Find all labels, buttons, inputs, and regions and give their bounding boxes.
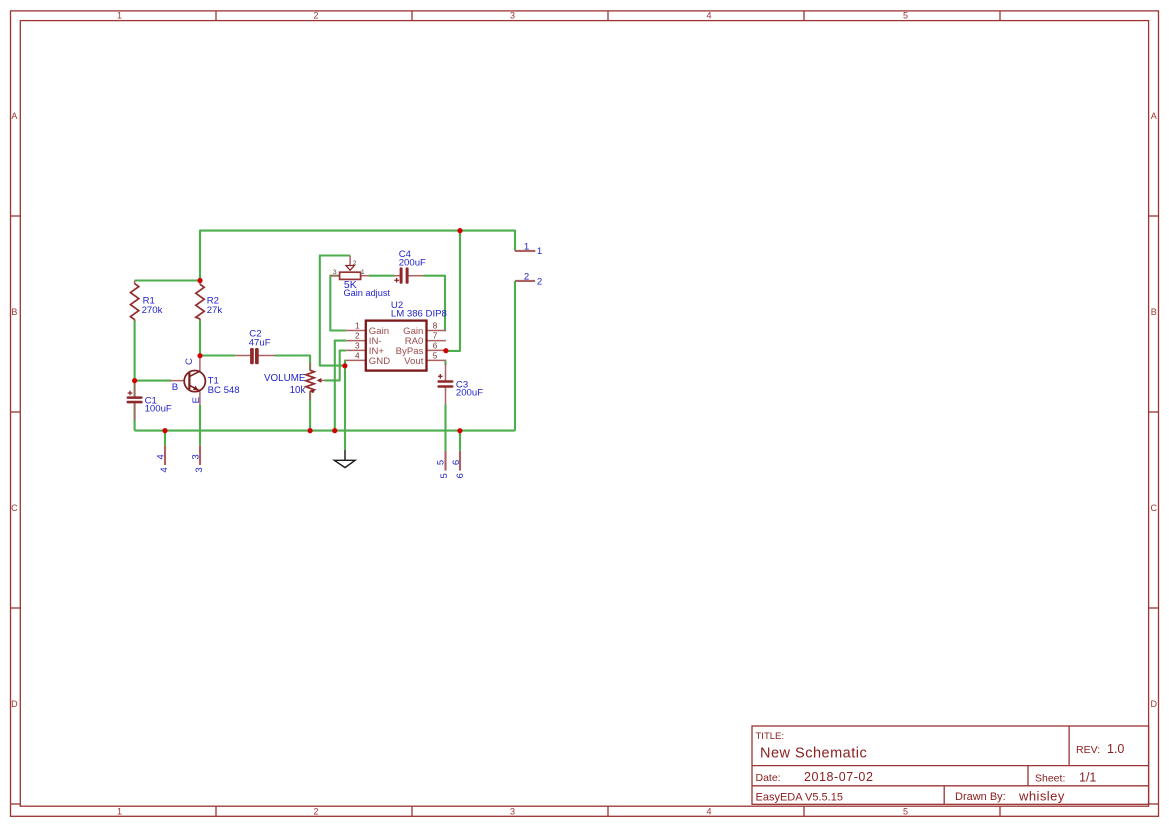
port 1 stub [515,250,535,252]
svg-text:B: B [11,307,17,317]
port 3 stub [199,446,201,465]
wire 5K wiper to gnd net [320,256,350,366]
junction pin 6 ByPas node [443,348,448,353]
svg-text:Drawn By:: Drawn By: [955,791,1006,803]
wire 5K left to pin1 [330,276,346,331]
capacitor C2 [250,348,259,364]
wire IN- down to rail [335,341,346,431]
potentiometer 5K wiper triangle [346,266,354,271]
capacitor C4 [400,267,409,283]
svg-text:Gain adjust: Gain adjust [344,288,391,298]
svg-text:A: A [1151,111,1157,121]
svg-text:3: 3 [510,11,515,21]
wire port4 stub top [164,431,166,446]
junction ground rail / port 6 [457,428,462,433]
blue labels [142,241,543,478]
svg-text:C: C [1151,503,1158,513]
svg-text:4: 4 [355,352,360,361]
svg-text:4: 4 [155,454,166,460]
svg-text:270k: 270k [142,305,163,316]
junction base / C1 / R1 node [132,378,137,383]
junction R1/R2 top node [197,278,202,283]
C1 plus sign [128,391,133,396]
svg-text:5: 5 [903,807,908,817]
wire wiper to IN+ [325,351,346,381]
port 6 stub [459,451,461,471]
svg-text:5: 5 [439,473,450,478]
svg-text:2: 2 [313,807,318,817]
svg-text:1: 1 [117,11,122,21]
svg-text:E: E [191,397,202,403]
5K right lead [361,275,369,277]
svg-text:5: 5 [436,460,447,465]
port 5 stub [444,451,446,471]
wire vcc to pin6 [446,231,460,351]
svg-text:1: 1 [117,807,122,817]
svg-text:REV:: REV: [1076,744,1100,756]
svg-text:27k: 27k [207,305,223,316]
svg-text:Vout: Vout [404,356,424,367]
resistor R2 [196,284,204,319]
resistor R2 stubs [199,281,201,285]
5K left lead [330,275,340,277]
svg-text:1: 1 [537,246,542,257]
svg-text:GND: GND [369,356,390,367]
svg-text:TITLE:: TITLE: [756,731,785,742]
T1 emitter lead [199,392,201,405]
svg-text:1/1: 1/1 [1079,771,1096,785]
svg-text:D: D [1151,699,1158,709]
C3 leads [445,364,447,381]
svg-text:B: B [172,382,178,393]
svg-text:C: C [11,503,18,513]
svg-text:C: C [184,358,195,365]
wire port6 stub top [459,431,461,451]
volume pot stubs [309,363,311,371]
svg-text:B: B [1151,307,1157,317]
svg-text:BC 548: BC 548 [208,385,240,396]
wire emitter down [199,405,201,446]
svg-text:3: 3 [333,269,337,276]
wire port2 down [514,281,516,431]
svg-text:6: 6 [433,342,438,351]
svg-text:4: 4 [706,11,711,21]
svg-text:2: 2 [524,272,529,283]
svg-text:A: A [11,111,17,121]
svg-text:2018-07-02: 2018-07-02 [804,770,873,784]
svg-text:Sheet:: Sheet: [1035,773,1065,785]
capacitor C3 [437,380,453,387]
port 4 stub [164,446,166,465]
svg-text:VOLUME: VOLUME [264,373,306,384]
svg-text:New Schematic: New Schematic [760,746,867,762]
C1 leads [134,381,136,397]
svg-text:3: 3 [510,807,515,817]
junction V+ rail / bypass branch [457,228,462,233]
svg-text:5: 5 [433,352,438,361]
C2 leads [235,355,250,357]
svg-text:1: 1 [355,322,360,331]
junction ground rail / volume [308,428,313,433]
resistor R1 stubs [134,281,136,285]
title block [752,726,1149,804]
5K wiper lead [349,256,351,266]
svg-text:3: 3 [190,454,201,459]
C3 plus sign [438,374,443,379]
svg-text:3: 3 [355,342,360,351]
svg-text:7: 7 [433,332,438,341]
svg-text:1.0: 1.0 [1107,742,1124,756]
T1 collector lead [199,356,201,371]
wire volume bottom [309,391,311,430]
svg-text:1: 1 [524,241,529,252]
svg-text:Date:: Date: [756,772,781,784]
svg-text:2: 2 [353,260,357,267]
potentiometer 5K body [340,272,361,279]
junction GND net / 5K wiper [342,363,347,368]
svg-text:47uF: 47uF [249,338,271,349]
svg-text:200uF: 200uF [399,258,426,269]
svg-text:6: 6 [455,473,466,478]
C4 leads [394,275,400,277]
volume wiper lead [319,379,325,381]
wires (green) [135,231,515,451]
potentiometer VOLUME zigzag [306,370,314,391]
wire C4 to pin8 [424,276,446,331]
T1 base lead [170,380,189,382]
potentiometer VOLUME wiper arrow [317,378,322,383]
IC pin lines right [427,330,446,332]
wire top rail [200,231,515,281]
ground symbol [334,450,355,468]
wire R1 top [135,279,200,281]
C4 plus sign [394,278,399,283]
wire R2 bottom [199,319,201,356]
wire C3 to port5 [444,404,446,450]
port 2 stub [515,280,535,282]
wire GND pin down [344,361,347,451]
junction collector / C2 node [197,353,202,358]
svg-text:4: 4 [706,807,711,817]
svg-text:LM 386 DIP8: LM 386 DIP8 [391,309,447,320]
svg-text:8: 8 [433,322,438,331]
svg-text:2: 2 [313,11,318,21]
svg-text:1: 1 [361,269,365,276]
svg-text:6: 6 [451,460,462,465]
wire base [135,380,171,382]
svg-text:2: 2 [355,332,360,341]
wire pin5 to C3 [444,361,446,366]
wire C2 to volume top [275,356,311,371]
junction ground rail / port 4 [162,428,167,433]
svg-text:3: 3 [194,467,205,472]
IC pin lines left [346,330,366,332]
svg-text:5: 5 [903,11,908,21]
svg-text:D: D [11,699,18,709]
potentiometer VOLUME pin3 dot [311,390,314,393]
wire R1 C1 left column [134,320,136,397]
wire bottom rail [135,430,515,432]
transistor T1 [184,371,205,392]
svg-text:4: 4 [159,467,170,473]
svg-text:whisley: whisley [1018,789,1065,804]
svg-text:10k: 10k [290,385,306,396]
junction ground rail / IN- [332,428,337,433]
op-amp U2 LM386 box [366,321,427,371]
svg-text:2: 2 [537,276,542,287]
wire 5K right to C4 [369,275,394,277]
capacitor C1 [127,396,143,403]
resistor R1 [130,284,138,320]
svg-text:100uF: 100uF [145,404,172,415]
wire collector node to C2 [200,354,235,356]
component leads / pin lines (rosy red) [135,251,536,471]
svg-text:EasyEDA V5.5.15: EasyEDA V5.5.15 [756,792,843,804]
svg-text:200uF: 200uF [456,387,483,398]
